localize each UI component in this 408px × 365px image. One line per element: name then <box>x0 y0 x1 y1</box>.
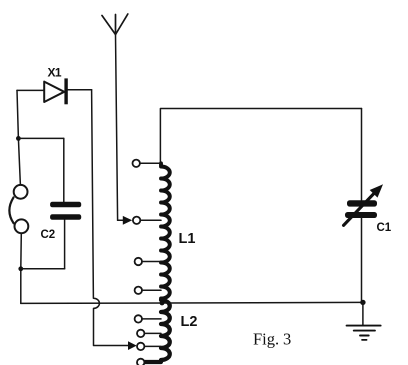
arrowhead at antenna tap <box>123 216 132 225</box>
wire C1 upper <box>361 109 363 201</box>
svg-text:3: 3 <box>283 329 291 348</box>
svg-text:L2: L2 <box>181 314 198 330</box>
C1 arrowhead <box>370 184 383 197</box>
tap circle 1 <box>133 160 140 167</box>
wire left to diode anode <box>17 89 44 91</box>
svg-text:L1: L1 <box>179 231 196 247</box>
svg-text:C1: C1 <box>377 222 392 234</box>
ground lead <box>362 302 364 325</box>
wire antenna elbow to L1 tap arrow <box>118 219 125 221</box>
tap circle 2 (antenna) <box>133 217 140 224</box>
svg-text:Fig.: Fig. <box>253 329 279 348</box>
top rail <box>160 109 361 164</box>
ground wire across bottom <box>21 302 363 303</box>
node junction dot top-left <box>16 136 21 141</box>
antenna <box>102 14 128 220</box>
variable capacitor C1 bottom plate <box>345 212 377 218</box>
tap circle 5 <box>135 315 142 322</box>
earphone top circle <box>14 185 28 199</box>
svg-text:C2: C2 <box>41 229 56 241</box>
wire tap3 <box>142 261 161 263</box>
left rail lower <box>20 233 23 303</box>
wire tap5 <box>142 318 161 320</box>
wire diode cathode to right rail <box>68 89 92 91</box>
wire tap1 <box>140 162 161 164</box>
earphone arc <box>9 197 13 223</box>
junction dot at ground <box>360 300 365 305</box>
tap circle 7 (detector) <box>137 343 144 350</box>
variable capacitor C1 top plate <box>347 200 377 206</box>
wire tap7 <box>144 345 161 347</box>
ground bar 2 <box>354 330 375 332</box>
wire tap4 <box>142 289 161 291</box>
C1 arrow shaft <box>344 192 376 226</box>
diode X1 <box>44 82 64 102</box>
wire bottom of C2 loop <box>21 268 65 270</box>
junction dot at coil <box>160 301 165 306</box>
ground bar 4 <box>362 339 367 341</box>
ground bar 3 <box>360 335 369 337</box>
wire C2 branch vertical lower <box>64 220 66 269</box>
node junction dot bottom-left <box>18 266 23 271</box>
wire C2 branch vertical upper <box>63 138 65 201</box>
wire C1 lower <box>361 218 363 303</box>
wire to C2 branch top <box>18 137 63 139</box>
left rail upper <box>17 90 20 185</box>
wire diode right rail with hop over ground wire <box>92 90 129 346</box>
wire tap6 <box>144 332 161 334</box>
inductor L2 coil <box>145 300 170 362</box>
tap circle 4 <box>135 287 142 294</box>
tap circle 6 <box>137 330 144 337</box>
earphone bottom circle <box>15 219 29 233</box>
tap circle 3 <box>135 258 142 265</box>
ground bar 1 <box>347 325 381 327</box>
tap circle 8 (bottom) <box>137 359 144 365</box>
svg-text:X1: X1 <box>48 66 62 80</box>
arrowhead at L2 tap <box>128 341 137 350</box>
wire tap2 <box>140 219 161 221</box>
inductor L1 coil <box>161 163 170 298</box>
capacitor C2 bottom plate <box>50 214 81 220</box>
capacitor C2 top plate <box>50 202 81 208</box>
